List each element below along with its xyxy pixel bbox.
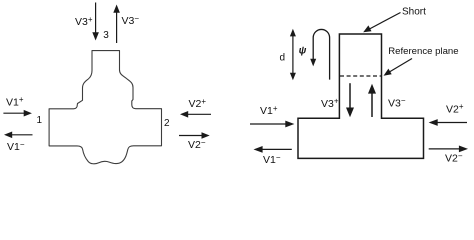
stub reflected arrow V3- (right fig) [368,84,376,117]
stub incident arrow V3+ (right fig) [346,83,354,117]
d dimension double arrow [290,29,296,81]
svg-text:Reference plane: Reference plane [388,46,458,57]
V2- arrow (right fig) [429,146,468,153]
V2+ arrow (right fig) [429,119,467,126]
svg-text:d: d [280,53,286,64]
svg-text:3: 3 [103,30,109,41]
Short pointer arrow [363,13,400,33]
svg-text:1: 1 [37,115,43,126]
svg-text:2: 2 [164,118,170,129]
T-junction body outline [298,34,424,158]
reference plane dashed line [340,75,381,77]
port 2 reflected arrow V2- [179,132,210,139]
port 3 reflected arrow V3- [113,5,120,44]
psi phase loop arrow [313,29,329,79]
port 2 incident arrow V2+ [180,111,211,118]
junction body outline [49,51,161,164]
Reference plane pointer arrow [384,59,413,76]
port 1 reflected arrow V1- [4,132,33,139]
svg-text:Short: Short [402,7,426,18]
V1+ arrow (right fig) [250,121,294,128]
port 3 incident arrow V3+ [92,3,99,41]
V1- arrow (right fig) [254,146,292,153]
svg-text:ψ: ψ [299,45,307,56]
port 1 incident arrow V1+ [3,110,32,117]
